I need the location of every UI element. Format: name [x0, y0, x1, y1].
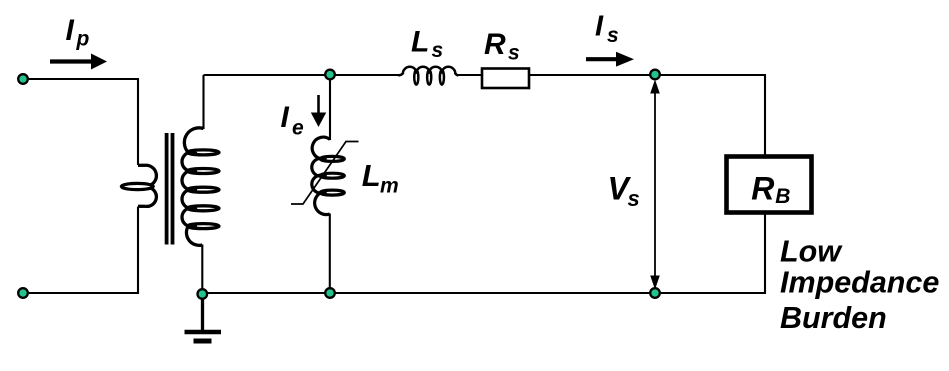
svg-text:B: B [775, 185, 790, 208]
svg-text:Low: Low [780, 235, 843, 269]
svg-text:s: s [432, 39, 444, 62]
svg-text:I: I [281, 101, 290, 134]
svg-text:L: L [362, 158, 381, 193]
svg-text:s: s [628, 186, 640, 211]
svg-text:R: R [751, 171, 774, 207]
svg-text:I: I [66, 14, 75, 47]
svg-text:p: p [76, 28, 90, 51]
svg-text:s: s [508, 42, 520, 65]
svg-text:L: L [411, 25, 429, 58]
svg-text:Burden: Burden [780, 301, 887, 335]
svg-text:Impedance: Impedance [780, 266, 939, 300]
svg-text:m: m [380, 174, 399, 197]
svg-text:e: e [292, 116, 304, 139]
svg-text:R: R [484, 28, 506, 61]
svg-text:s: s [607, 24, 619, 47]
svg-text:I: I [595, 11, 604, 43]
